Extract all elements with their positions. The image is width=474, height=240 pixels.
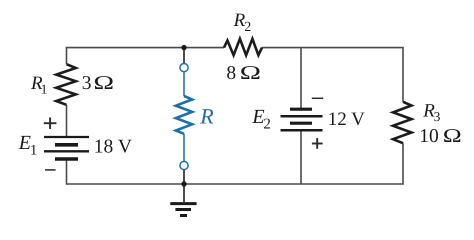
svg-text:E2: E2 <box>251 106 271 133</box>
svg-text:R3: R3 <box>422 101 440 125</box>
svg-text:10 Ω: 10 Ω <box>419 126 462 147</box>
svg-text:8 Ω: 8 Ω <box>226 63 261 84</box>
svg-text:3 Ω: 3 Ω <box>82 73 115 94</box>
svg-text:E1: E1 <box>18 132 37 159</box>
svg-text:R: R <box>199 104 214 129</box>
svg-text:18 V: 18 V <box>94 137 132 158</box>
svg-text:R1: R1 <box>30 73 47 97</box>
svg-text:R2: R2 <box>233 10 252 35</box>
svg-text:12 V: 12 V <box>328 109 365 130</box>
